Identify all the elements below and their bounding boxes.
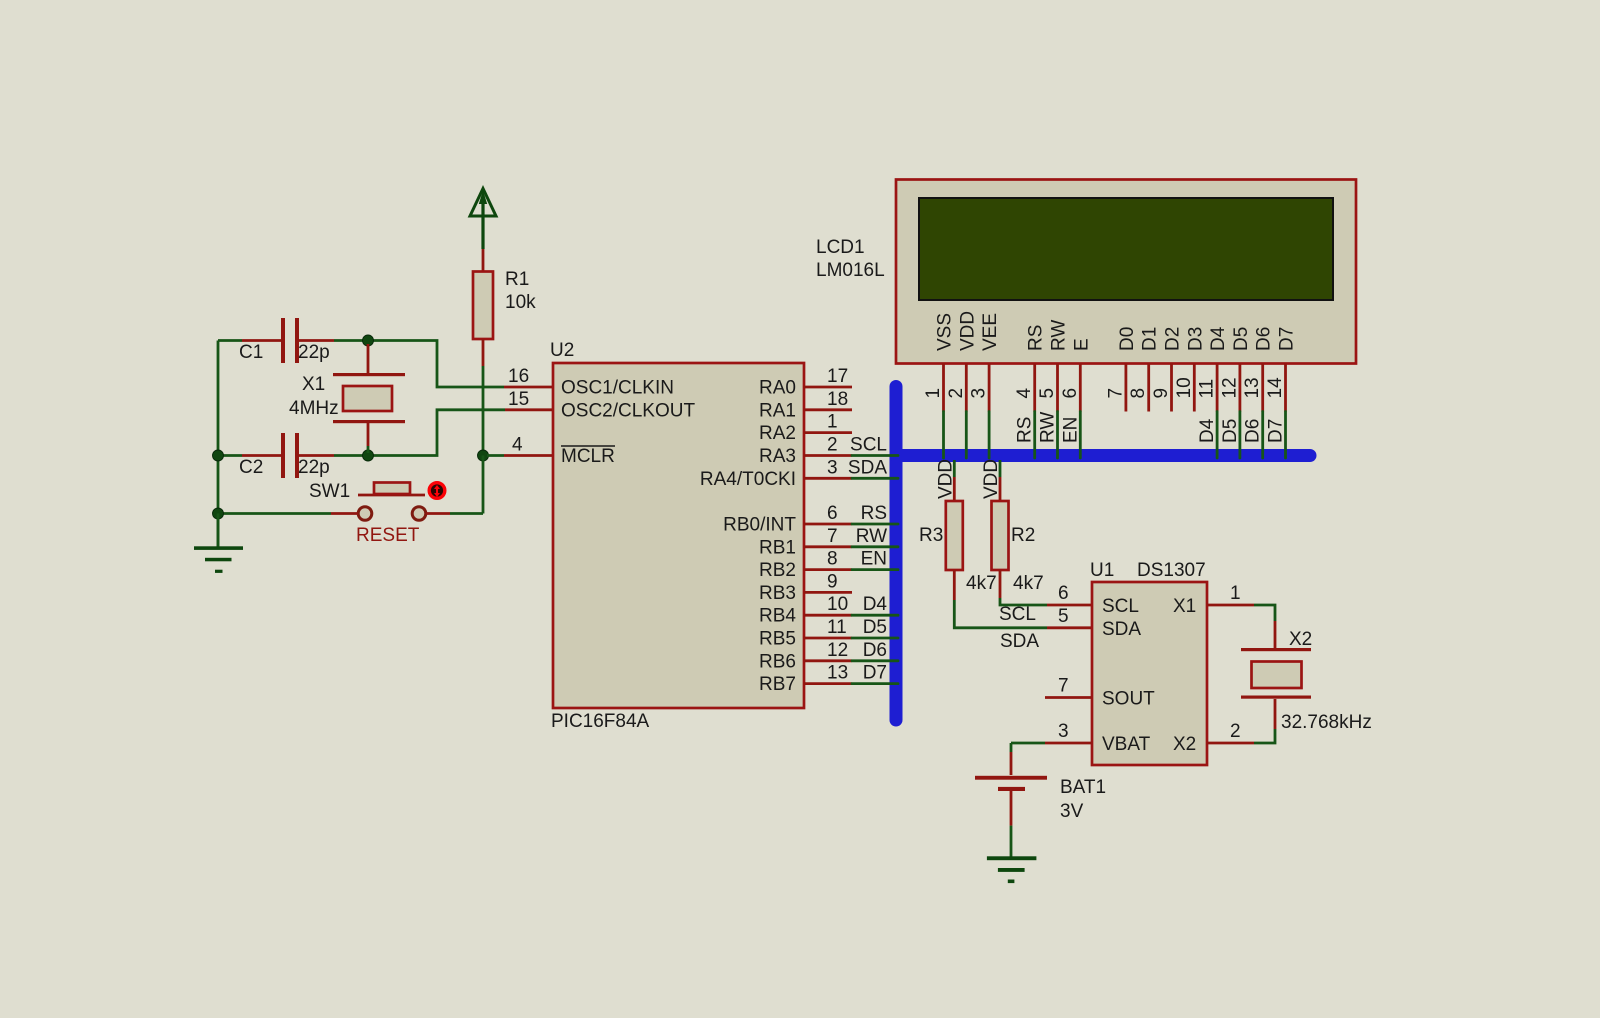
pin number 15: [508, 389, 529, 410]
svg-text:6: 6: [827, 503, 838, 524]
LCD pin 14 D7: [1265, 327, 1298, 458]
svg-text:18: 18: [827, 389, 848, 410]
svg-text:C1: C1: [239, 342, 263, 363]
ground left: [194, 514, 243, 573]
pin name RA1: [759, 400, 796, 421]
svg-text:D1: D1: [1140, 327, 1161, 351]
pin name OSC2/CLKOUT: [561, 400, 695, 421]
resistor R3: [946, 460, 963, 600]
svg-text:BAT1: BAT1: [1060, 777, 1106, 798]
svg-text:RB5: RB5: [759, 629, 796, 650]
wire C1 left: [218, 339, 281, 342]
wire power to R1: [482, 249, 485, 272]
svg-text:3V: 3V: [1060, 801, 1084, 822]
svg-text:RA4/T0CKI: RA4/T0CKI: [700, 469, 796, 490]
pin name RB1: [759, 537, 796, 558]
svg-text:11: 11: [1197, 379, 1218, 399]
svg-text:VDD: VDD: [935, 459, 956, 499]
svg-text:4: 4: [512, 435, 523, 456]
pin number 4: [512, 435, 523, 456]
svg-text:3: 3: [1058, 721, 1069, 742]
svg-text:12: 12: [827, 640, 848, 661]
pin name RB0/INT: [723, 515, 796, 536]
svg-text:U1: U1: [1090, 560, 1114, 581]
svg-text:7: 7: [1058, 676, 1069, 697]
svg-text:D4: D4: [1197, 418, 1218, 443]
svg-text:7: 7: [1105, 388, 1126, 399]
svg-text:10: 10: [1174, 377, 1195, 398]
svg-text:5: 5: [1037, 388, 1058, 399]
svg-text:D6: D6: [1254, 327, 1275, 351]
svg-text:RESET: RESET: [356, 525, 420, 546]
LCD pin 12 D5: [1219, 327, 1252, 458]
svg-text:RA1: RA1: [759, 400, 796, 421]
label RESET: [356, 525, 420, 546]
pin name RB2: [759, 560, 796, 581]
svg-text:9: 9: [1151, 388, 1172, 399]
svg-text:16: 16: [508, 366, 529, 387]
svg-text:2: 2: [946, 388, 967, 399]
svg-text:VDD: VDD: [957, 311, 978, 351]
wire MCLR stub: [487, 454, 553, 457]
label C2 value: [239, 457, 330, 478]
label R3 value 4k7: [919, 525, 997, 594]
ground battery: [987, 856, 1037, 883]
svg-text:LM016L: LM016L: [816, 260, 885, 281]
pin name RB4: [759, 606, 796, 627]
svg-text:X2: X2: [1289, 629, 1312, 650]
wire MCLR to switch: [482, 456, 485, 514]
LCD1 LM016L body: [896, 180, 1356, 364]
svg-text:RB6: RB6: [759, 651, 796, 672]
LCD pin 5 RW: [1037, 320, 1070, 458]
label R1 10k: [505, 269, 536, 313]
svg-text:10: 10: [827, 594, 848, 615]
pin name RA0: [759, 378, 796, 399]
svg-text:PIC16F84A: PIC16F84A: [551, 711, 650, 732]
node MCLR junction: [478, 450, 489, 461]
wire R3 to SDA pin 5: [954, 600, 1092, 652]
LCD pin 2 VDD: [946, 311, 979, 458]
label X2 value: [1281, 629, 1372, 733]
svg-text:D5: D5: [1231, 327, 1252, 351]
svg-text:D6: D6: [1243, 419, 1264, 443]
svg-text:RS: RS: [1015, 417, 1036, 443]
svg-text:D4: D4: [1208, 326, 1229, 351]
label U2: [550, 340, 574, 361]
wire crystal to DS1307 X2 pin 2: [1207, 699, 1275, 743]
pin number 16: [508, 366, 529, 387]
svg-text:RB4: RB4: [759, 606, 796, 627]
power symbol VDD arrow: [470, 189, 496, 250]
pin name RB3: [759, 583, 796, 604]
pin name SOUT: [1102, 689, 1155, 710]
svg-text:RW: RW: [1038, 412, 1059, 443]
svg-text:13: 13: [827, 663, 848, 684]
bus horizontal: [896, 449, 1310, 462]
svg-text:D7: D7: [863, 663, 887, 684]
LCD pin 8 D1: [1128, 327, 1161, 412]
svg-text:9: 9: [827, 571, 838, 592]
svg-text:RB7: RB7: [759, 674, 796, 695]
svg-text:U2: U2: [550, 340, 574, 361]
svg-text:22p: 22p: [298, 457, 330, 478]
svg-text:D0: D0: [1117, 327, 1138, 351]
svg-text:5: 5: [1058, 606, 1069, 627]
svg-text:RB2: RB2: [759, 560, 796, 581]
wire reset left: [218, 512, 358, 515]
svg-text:RA3: RA3: [759, 446, 796, 467]
wire RB5 pin 11 net D5: [804, 617, 898, 638]
label R2 value 4k7: [1011, 525, 1044, 594]
pin name X1: [1173, 596, 1196, 617]
pin name RA4/T0CKI: [700, 469, 796, 490]
svg-text:X1: X1: [302, 374, 325, 395]
label PIC16F84A: [551, 711, 650, 732]
pin name RB6: [759, 651, 796, 672]
svg-text:15: 15: [508, 389, 529, 410]
wire RA1 pin 18: [804, 389, 852, 410]
label LCD1 LM016L: [816, 237, 885, 281]
svg-text:EN: EN: [1060, 417, 1081, 443]
svg-text:D5: D5: [1220, 419, 1241, 443]
svg-text:1: 1: [827, 412, 838, 433]
svg-text:4k7: 4k7: [966, 573, 997, 594]
svg-text:6: 6: [1060, 388, 1081, 399]
label C1 value: [239, 342, 330, 363]
svg-text:11: 11: [827, 617, 847, 638]
svg-text:R1: R1: [505, 269, 529, 290]
svg-text:4k7: 4k7: [1013, 573, 1044, 594]
svg-text:RB3: RB3: [759, 583, 796, 604]
svg-text:E: E: [1071, 338, 1092, 351]
svg-text:RB1: RB1: [759, 537, 796, 558]
svg-text:D7: D7: [1266, 419, 1287, 443]
label X1 4MHz: [289, 374, 339, 419]
svg-text:14: 14: [1265, 377, 1286, 399]
wire C1 right: [299, 341, 553, 388]
svg-text:RB0/INT: RB0/INT: [723, 515, 796, 536]
pin name VBAT: [1102, 734, 1151, 755]
svg-text:DS1307: DS1307: [1137, 560, 1206, 581]
svg-text:R2: R2: [1011, 525, 1035, 546]
wire RB0 pin 6 net RS: [804, 503, 898, 524]
wire SOUT pin 7 stub: [1045, 676, 1092, 698]
pin name SCL: [1102, 596, 1139, 617]
pin name MCLR with overline: [561, 446, 615, 467]
crystal X1: [333, 344, 405, 453]
svg-text:SCL: SCL: [850, 435, 887, 456]
pin name OSC1/CLKIN: [561, 378, 674, 399]
svg-text:X2: X2: [1173, 734, 1196, 755]
switch SW1: [358, 483, 426, 521]
svg-text:RS: RS: [1026, 325, 1047, 351]
svg-text:8: 8: [1128, 388, 1149, 399]
pin name RA3: [759, 446, 796, 467]
svg-text:SDA: SDA: [1102, 619, 1141, 640]
wire C2 left: [218, 454, 281, 457]
svg-text:VDD: VDD: [981, 459, 1002, 499]
capacitor C2: [281, 433, 299, 478]
wire RA2 pin 1: [804, 412, 852, 433]
node C2-X1 junction: [363, 450, 374, 461]
svg-text:VEE: VEE: [980, 313, 1001, 351]
svg-text:1: 1: [1230, 583, 1241, 604]
svg-text:3: 3: [827, 457, 838, 478]
label VDD (R2): [981, 459, 1002, 499]
svg-text:RW: RW: [856, 526, 887, 547]
svg-text:D2: D2: [1163, 327, 1184, 351]
resistor R1: [473, 272, 493, 340]
label SW1: [309, 481, 350, 502]
LCD pin 11 D4: [1197, 326, 1230, 458]
LCD pin 4 RS: [1014, 325, 1047, 458]
wire DS1307 X1 pin 1 to crystal: [1207, 583, 1275, 651]
svg-text:4MHz: 4MHz: [289, 398, 339, 419]
svg-text:10k: 10k: [505, 292, 536, 313]
IC U2 PIC16F84A body: [553, 363, 804, 708]
svg-text:2: 2: [1230, 721, 1241, 742]
LCD pin 9 D2: [1151, 327, 1184, 412]
wire R1 to MCLR: [482, 339, 485, 456]
IC U1 DS1307 body: [1092, 582, 1207, 765]
bus vertical: [890, 387, 903, 721]
svg-text:RA2: RA2: [759, 423, 796, 444]
wire VBAT pin 3: [1011, 721, 1092, 775]
svg-text:3: 3: [969, 388, 990, 399]
svg-text:RA0: RA0: [759, 378, 796, 399]
svg-text:X1: X1: [1173, 596, 1196, 617]
svg-text:SCL: SCL: [1102, 596, 1139, 617]
LCD screen: [919, 198, 1333, 300]
svg-text:12: 12: [1219, 377, 1240, 398]
battery BAT1: [975, 776, 1047, 857]
svg-text:SCL: SCL: [999, 604, 1036, 625]
svg-text:4: 4: [1014, 388, 1035, 399]
svg-text:D3: D3: [1185, 327, 1206, 351]
wire RB2 pin 8 net EN: [804, 549, 898, 570]
svg-text:17: 17: [827, 366, 848, 387]
LCD pin 3 VEE: [969, 313, 1002, 458]
label U1 DS1307: [1090, 560, 1206, 581]
wire RA0 pin 17: [804, 366, 852, 387]
LCD pin 10 D3: [1174, 327, 1207, 412]
svg-text:D6: D6: [863, 640, 887, 661]
svg-text:6: 6: [1058, 583, 1069, 604]
svg-text:VBAT: VBAT: [1102, 734, 1151, 755]
wire RB7 pin 13 net D7: [804, 663, 898, 684]
svg-text:22p: 22p: [298, 342, 330, 363]
node C2 left junction: [213, 450, 224, 461]
crystal X2: [1241, 648, 1311, 699]
svg-text:D4: D4: [863, 594, 888, 615]
svg-text:SOUT: SOUT: [1102, 689, 1155, 710]
label VDD (R3): [935, 459, 956, 499]
pin name RB7: [759, 674, 796, 695]
capacitor C1: [281, 318, 299, 363]
svg-text:2: 2: [827, 435, 838, 456]
svg-text:VSS: VSS: [935, 313, 956, 351]
wire RB6 pin 12 net D6: [804, 640, 898, 661]
svg-text:D5: D5: [863, 617, 887, 638]
svg-text:R3: R3: [919, 525, 943, 546]
LCD pin 7 D0: [1105, 327, 1138, 412]
svg-text:RW: RW: [1049, 320, 1070, 351]
label BAT1 3V: [1060, 777, 1106, 822]
svg-text:D7: D7: [1277, 327, 1298, 351]
wire left vertical: [217, 341, 220, 550]
svg-text:SW1: SW1: [309, 481, 350, 502]
svg-text:13: 13: [1242, 377, 1263, 398]
svg-text:8: 8: [827, 549, 838, 570]
wire RA4 pin 3 net SDA: [804, 457, 898, 478]
node reset left junction: [213, 508, 224, 519]
wire RA3 pin 2 net SCL: [804, 435, 898, 456]
pin name X2: [1173, 734, 1196, 755]
svg-text:RS: RS: [861, 503, 887, 524]
pin name RB5: [759, 629, 796, 650]
switch actuator icon: [429, 483, 445, 499]
svg-text:LCD1: LCD1: [816, 237, 865, 258]
svg-text:SDA: SDA: [848, 457, 887, 478]
LCD pin 6 E: [1060, 338, 1093, 458]
wire R2 to SCL pin 6: [999, 583, 1092, 625]
svg-text:SDA: SDA: [1000, 631, 1039, 652]
wire RB4 pin 10 net D4: [804, 594, 898, 615]
node C1-X1 junction: [363, 335, 374, 346]
wire C2 right: [299, 410, 553, 456]
LCD pin 13 D6: [1242, 327, 1275, 458]
svg-text:OSC1/CLKIN: OSC1/CLKIN: [561, 378, 674, 399]
LCD pin 1 VSS: [923, 313, 956, 458]
svg-text:EN: EN: [861, 549, 887, 570]
svg-text:OSC2/CLKOUT: OSC2/CLKOUT: [561, 400, 695, 421]
wire reset right: [426, 512, 483, 515]
pin name RA2: [759, 423, 796, 444]
resistor R2: [992, 460, 1009, 598]
svg-text:C2: C2: [239, 457, 263, 478]
pin name SDA: [1102, 619, 1141, 640]
svg-text:1: 1: [923, 388, 944, 399]
svg-text:MCLR: MCLR: [561, 446, 615, 467]
wire RB1 pin 7 net RW: [804, 526, 898, 547]
wire RB3 pin 9: [804, 571, 852, 592]
svg-text:32.768kHz: 32.768kHz: [1281, 712, 1372, 733]
svg-text:7: 7: [827, 526, 838, 547]
